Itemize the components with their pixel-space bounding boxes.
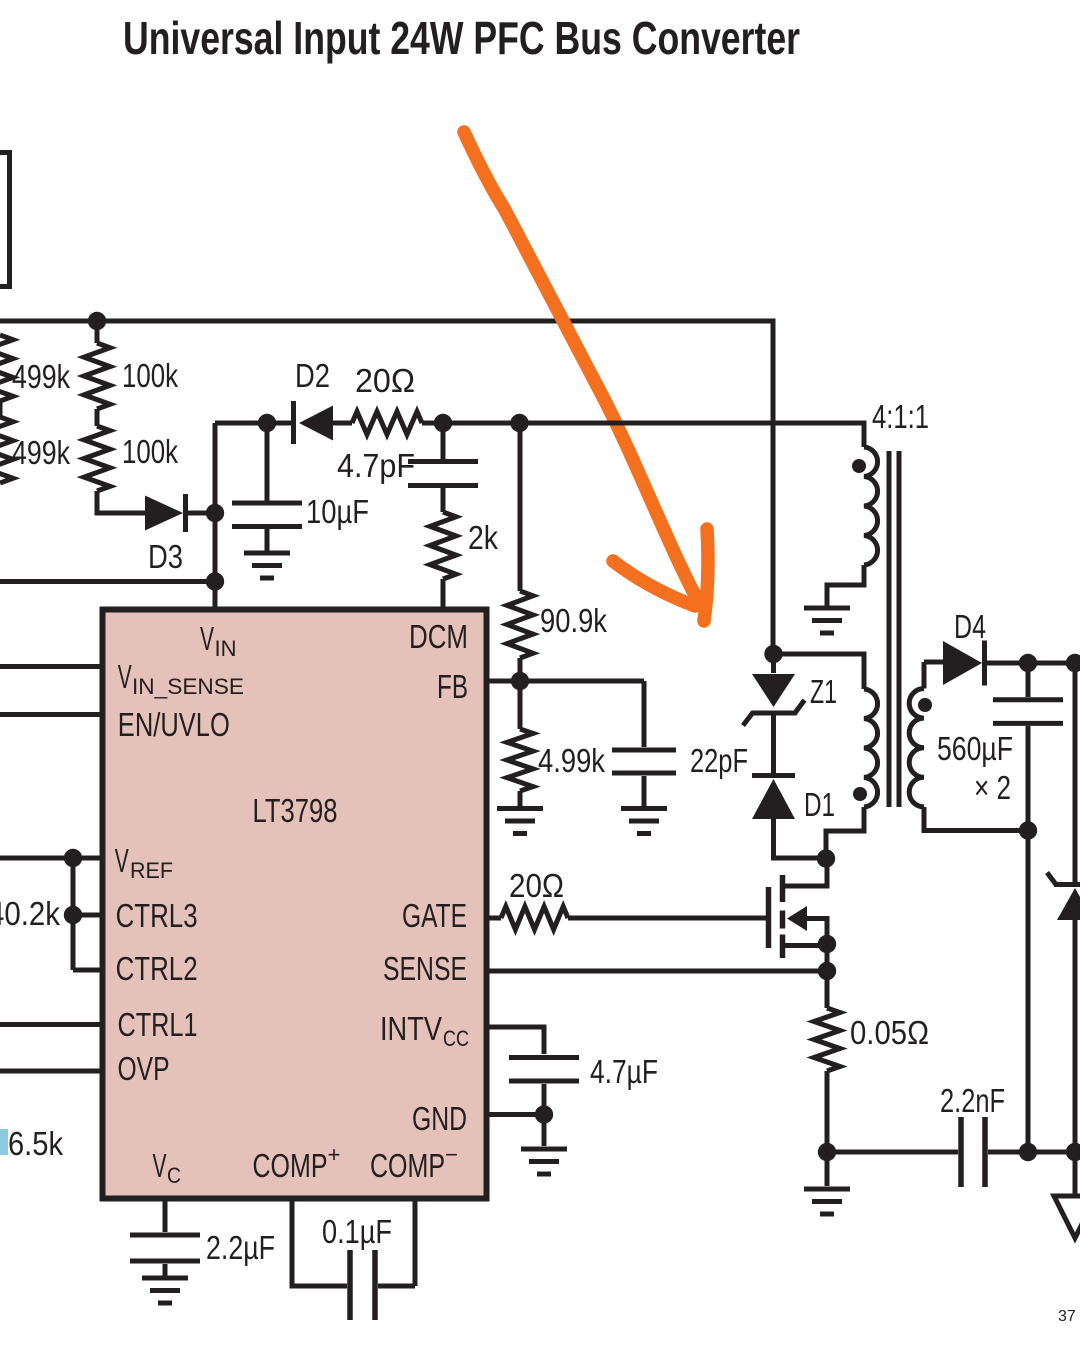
svg-text:100k: 100k	[122, 433, 178, 470]
svg-text:COMP: COMP	[253, 1147, 328, 1184]
svg-text:37: 37	[1058, 1308, 1076, 1325]
svg-text:D2: D2	[295, 357, 330, 394]
svg-text:22pF: 22pF	[690, 742, 748, 779]
svg-text:V: V	[115, 842, 129, 879]
svg-text:6.5k: 6.5k	[8, 1125, 63, 1162]
svg-text:SENSE: SENSE	[383, 950, 467, 987]
svg-text:+: +	[328, 1142, 341, 1167]
svg-text:IN_SENSE: IN_SENSE	[132, 674, 244, 699]
svg-text:560µF: 560µF	[937, 730, 1013, 767]
svg-text:499k: 499k	[12, 358, 70, 395]
svg-text:IN: IN	[215, 636, 237, 661]
svg-text:4.7µF: 4.7µF	[590, 1053, 658, 1090]
svg-text:GND: GND	[412, 1100, 467, 1137]
svg-text:V: V	[200, 620, 214, 657]
svg-text:2k: 2k	[468, 519, 498, 556]
svg-text:2.2µF: 2.2µF	[206, 1229, 275, 1266]
svg-text:× 2: × 2	[974, 769, 1011, 806]
svg-text:REF: REF	[130, 858, 173, 883]
svg-text:GATE: GATE	[402, 897, 467, 934]
svg-text:INTV: INTV	[380, 1010, 442, 1047]
svg-text:Universal Input 24W PFC Bus Co: Universal Input 24W PFC Bus Converter	[123, 12, 800, 64]
svg-text:OVP: OVP	[118, 1050, 170, 1087]
svg-text:4.99k: 4.99k	[538, 742, 605, 779]
svg-text:4:1:1: 4:1:1	[872, 398, 929, 435]
svg-text:20Ω: 20Ω	[509, 867, 564, 904]
svg-text:DCM: DCM	[409, 618, 468, 655]
svg-text:FB: FB	[437, 668, 468, 705]
svg-text:COMP: COMP	[370, 1147, 445, 1184]
svg-text:20Ω: 20Ω	[355, 362, 415, 399]
svg-text:CTRL1: CTRL1	[118, 1006, 198, 1043]
svg-text:D4: D4	[954, 608, 986, 645]
svg-text:90.9k: 90.9k	[540, 602, 607, 639]
svg-text:100k: 100k	[122, 357, 178, 394]
svg-text:CTRL3: CTRL3	[116, 897, 198, 934]
svg-text:D3: D3	[148, 538, 183, 575]
svg-text:40.2k: 40.2k	[0, 895, 60, 932]
svg-text:0.1µF: 0.1µF	[322, 1213, 392, 1250]
svg-text:D1: D1	[804, 786, 835, 823]
svg-text:10µF: 10µF	[306, 493, 369, 530]
svg-text:V: V	[153, 1147, 167, 1184]
svg-text:C: C	[167, 1163, 181, 1188]
svg-text:Z1: Z1	[810, 673, 837, 710]
svg-text:V: V	[118, 658, 132, 695]
svg-text:EN/UVLO: EN/UVLO	[118, 706, 230, 743]
svg-text:499k: 499k	[12, 434, 70, 471]
svg-text:−: −	[445, 1142, 458, 1167]
svg-text:4.7pF: 4.7pF	[337, 447, 415, 484]
svg-text:CTRL2: CTRL2	[116, 950, 198, 987]
svg-text:0.05Ω: 0.05Ω	[850, 1014, 929, 1051]
svg-text:LT3798: LT3798	[253, 792, 338, 829]
svg-text:CC: CC	[443, 1026, 469, 1051]
svg-text:2.2nF: 2.2nF	[940, 1082, 1005, 1119]
